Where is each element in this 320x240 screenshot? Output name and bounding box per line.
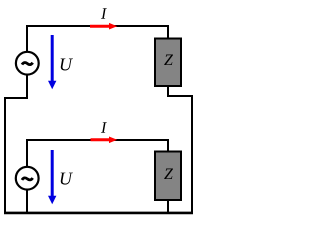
wire source V1 bottom lead [26,74,28,99]
wire Z1 bottom lead [167,86,169,96]
label I of circuit 1 [101,8,107,18]
wire source V1 top lead [26,25,28,53]
current arrow I1 [90,23,117,30]
AC source V1 [16,52,39,75]
wire left edge circuit 1 [4,97,6,214]
impedance Z1 [155,39,181,87]
wire Z2 bottom lead [167,200,169,213]
wire Z2 top lead [167,139,169,151]
wire Z1 top lead [167,25,169,38]
wire top rail circuit 1 [27,25,168,27]
impedance Z2 [155,152,181,201]
label I of circuit 2 [101,122,107,132]
AC source V2 [16,167,39,190]
wire jog left circuit 1 [4,97,27,99]
label U of circuit 2 [61,173,73,185]
current arrow I2 [91,137,118,144]
label U of circuit 1 [61,59,73,71]
wire bottom rail shared [4,212,193,215]
wire right edge circuit 1 [191,95,193,214]
voltage arrow U1 [48,35,56,89]
wire source V2 bottom lead [26,189,28,213]
label Z of Z2 [164,169,173,179]
wire source V2 top lead [26,139,28,167]
voltage arrow U2 [48,150,56,204]
wire top rail circuit 2 [27,139,168,141]
wire jog right circuit 1 [167,95,192,97]
label Z of Z1 [164,55,173,65]
